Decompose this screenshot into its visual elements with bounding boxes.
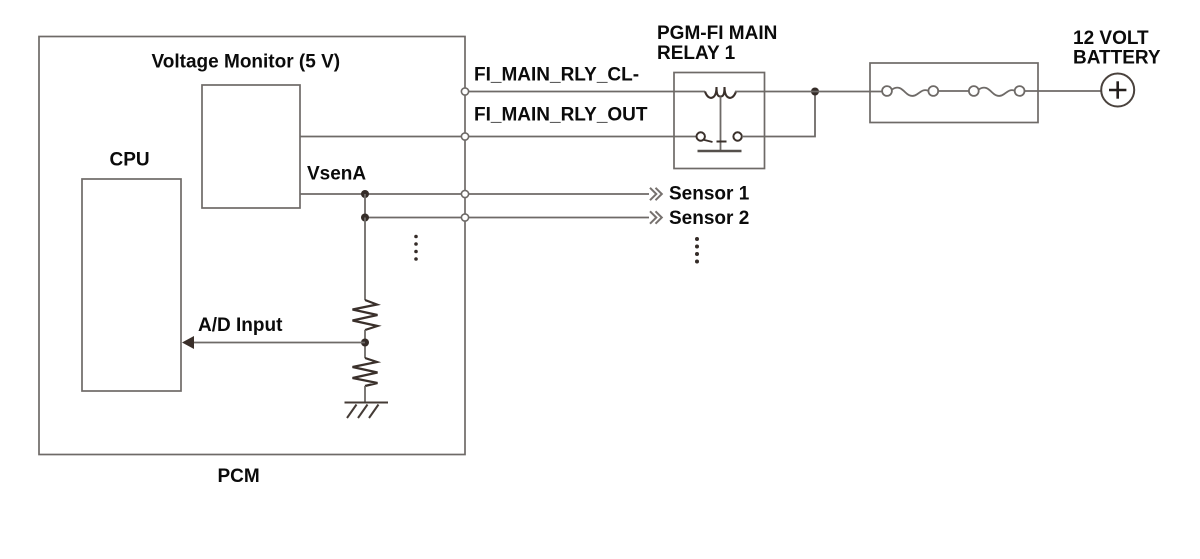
fuse F2 xyxy=(969,86,1025,96)
node A/D junction dot xyxy=(361,339,369,347)
relay armature vertical xyxy=(720,97,722,152)
relay coil L1 xyxy=(705,87,736,98)
ellipsis dots right xyxy=(695,237,699,264)
junction dot VsenA xyxy=(361,190,369,198)
wire fuse box to battery xyxy=(1025,90,1102,92)
relay contact arm xyxy=(704,140,713,142)
junction dot sensor2 branch xyxy=(361,214,369,222)
svg-text:A/D Input: A/D Input xyxy=(198,315,283,336)
CPU box xyxy=(82,179,181,391)
svg-text:PGM-FI MAIN: PGM-FI MAIN xyxy=(657,23,777,44)
ellipsis dots left xyxy=(414,235,418,261)
svg-text:Sensor 2: Sensor 2 xyxy=(669,208,749,229)
svg-text:VsenA: VsenA xyxy=(307,163,366,184)
relay box xyxy=(674,73,765,169)
wire VsenA down to divider xyxy=(364,218,366,301)
svg-text:12 VOLT: 12 VOLT xyxy=(1073,28,1149,49)
battery plus sign xyxy=(1109,81,1126,98)
wire to sensor 2 xyxy=(365,194,649,218)
svg-text:Voltage Monitor (5 V): Voltage Monitor (5 V) xyxy=(152,51,341,72)
svg-text:BATTERY: BATTERY xyxy=(1073,48,1161,69)
wire between fuses xyxy=(938,90,969,92)
junction dot main wire xyxy=(811,88,819,96)
svg-text:FI_MAIN_RLY_CL-: FI_MAIN_RLY_CL- xyxy=(474,65,639,86)
svg-text:CPU: CPU xyxy=(110,150,150,171)
wire R1 to junction xyxy=(364,330,366,358)
wire VsenA xyxy=(300,193,649,195)
svg-text:FI_MAIN_RLY_OUT: FI_MAIN_RLY_OUT xyxy=(474,104,648,125)
connector pin circle OUT xyxy=(461,133,468,140)
voltage monitor box xyxy=(202,85,300,208)
sensor 2 chevron arrow xyxy=(650,211,662,223)
connector pin circle sensor2 xyxy=(461,214,468,221)
svg-text:RELAY 1: RELAY 1 xyxy=(657,43,736,64)
wire R2 to ground xyxy=(364,386,366,402)
svg-text:Sensor 1: Sensor 1 xyxy=(669,183,750,204)
resistor R1 xyxy=(353,300,378,330)
connector pin circle sensor1 xyxy=(461,190,468,197)
wire coil to fuse box xyxy=(735,91,883,93)
wire FI_MAIN_RLY_CL- xyxy=(469,91,706,93)
fuse box xyxy=(870,63,1038,123)
relay armature bar xyxy=(698,150,742,152)
wire FI_MAIN_RLY_OUT xyxy=(300,136,697,138)
wire A/D input xyxy=(193,342,365,344)
relay contact circle right xyxy=(733,132,741,140)
resistor R2 xyxy=(353,358,378,386)
svg-text:PCM: PCM xyxy=(218,466,260,487)
relay contact circle left xyxy=(697,132,705,140)
battery B1 circle xyxy=(1101,74,1134,107)
relay armature tick xyxy=(717,141,727,143)
ground xyxy=(345,403,389,419)
PCM box xyxy=(39,37,465,455)
A/D input arrowhead xyxy=(182,336,194,349)
sensor 1 chevron arrow xyxy=(650,188,662,200)
wire relay output up to main xyxy=(742,92,815,137)
fuse F1 xyxy=(882,86,938,96)
connector pin circle CL xyxy=(461,88,468,95)
